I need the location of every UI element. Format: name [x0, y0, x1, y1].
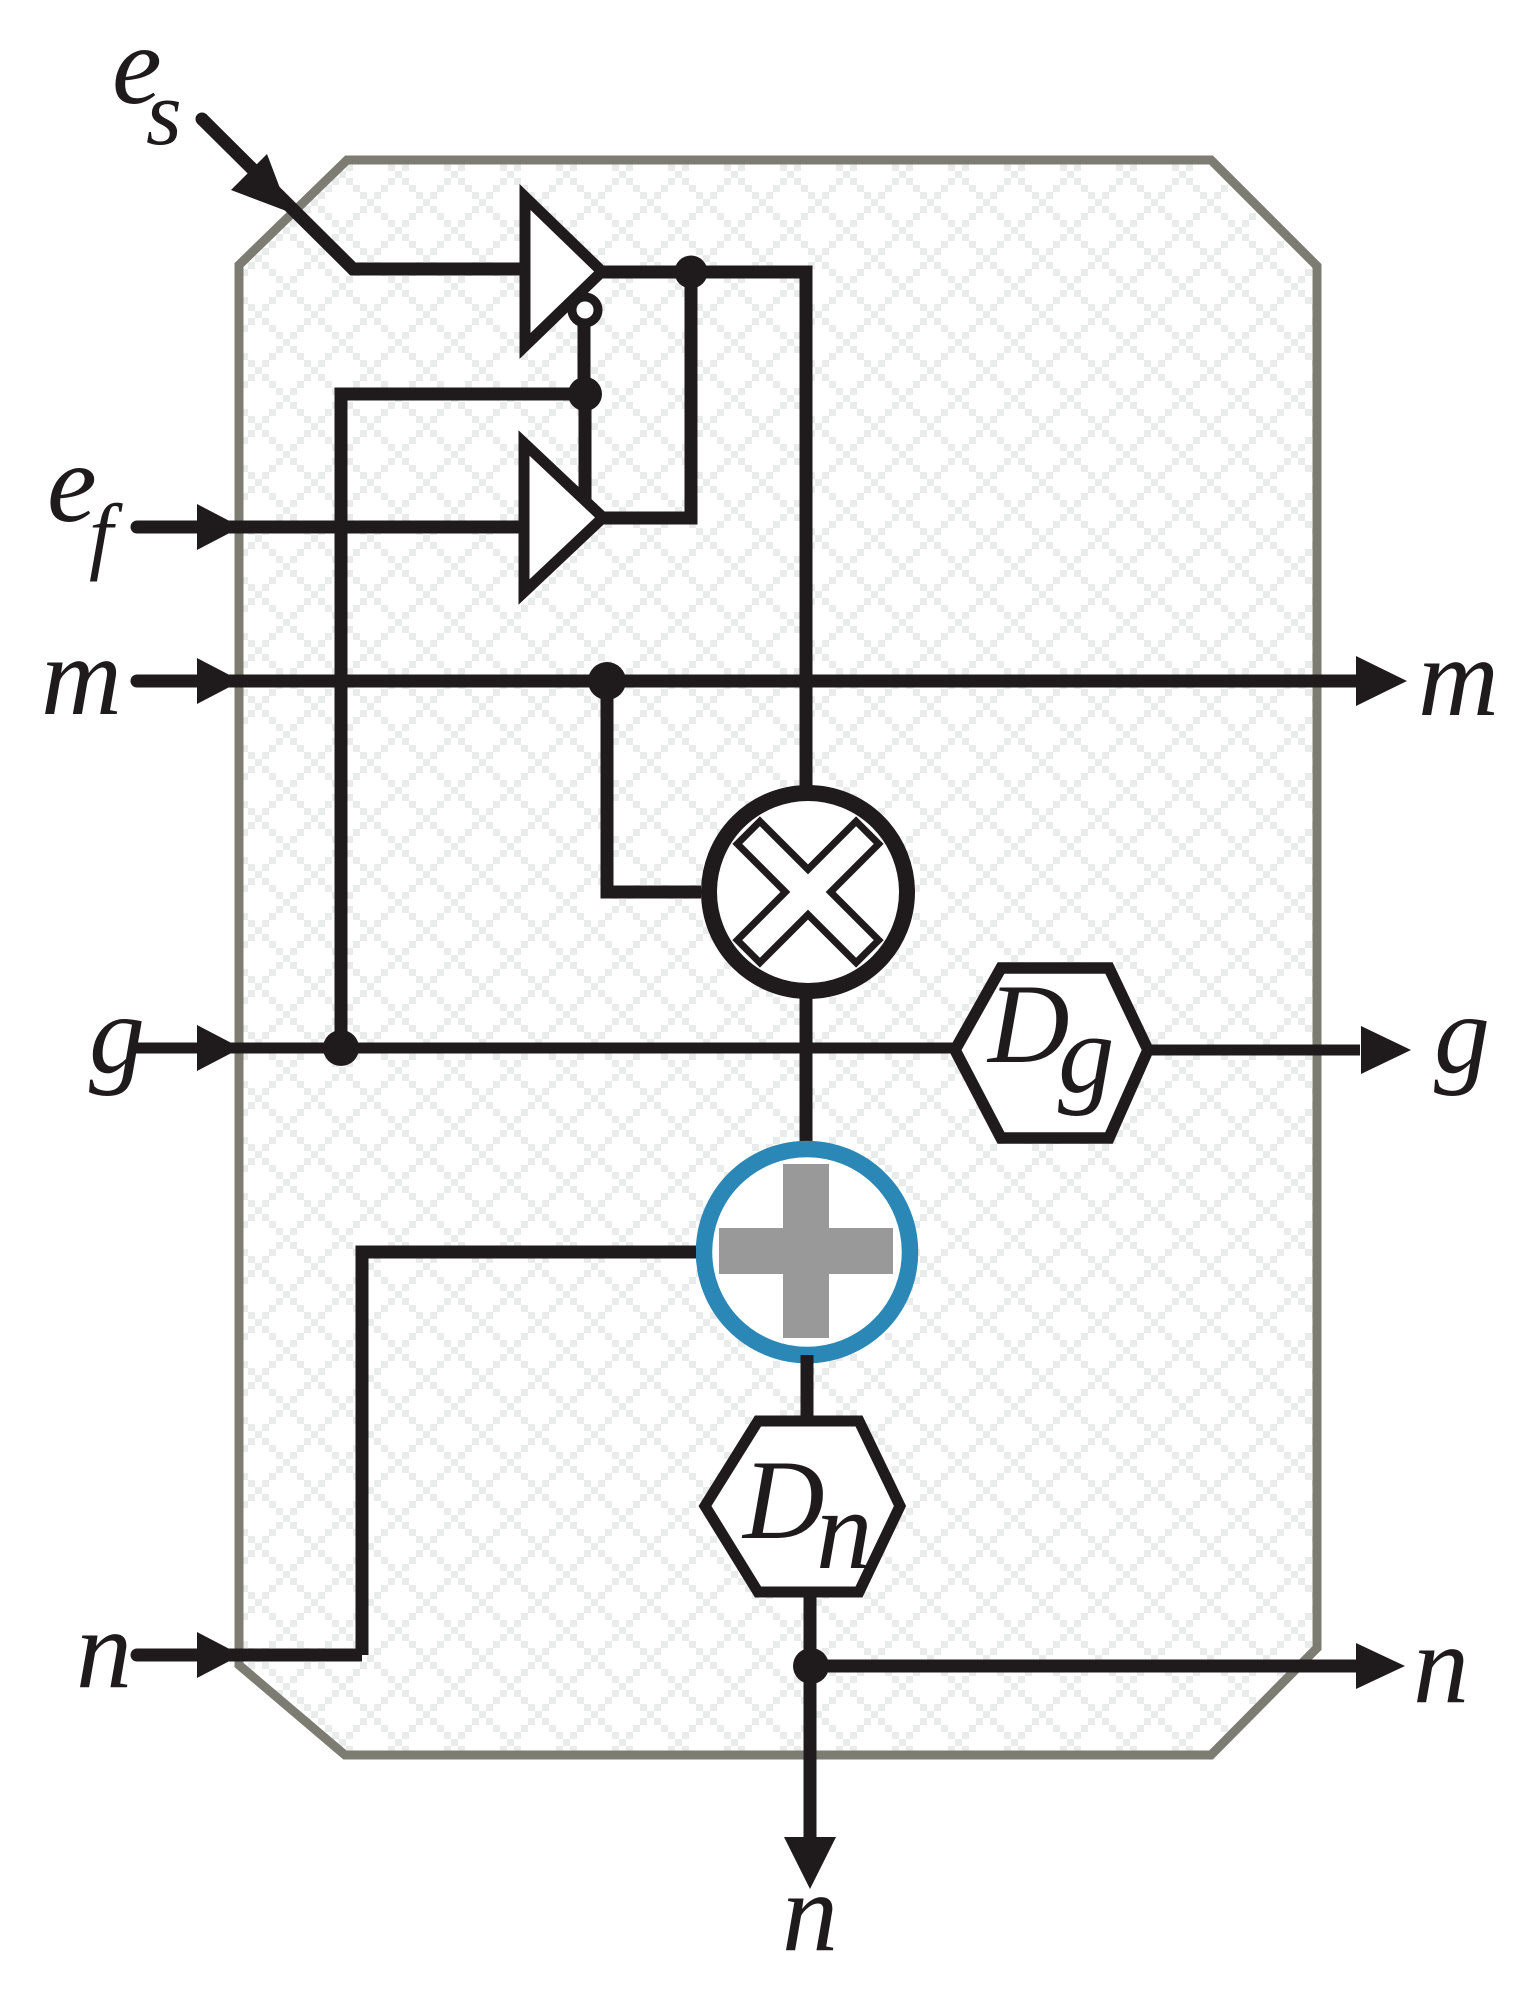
arrowhead m output: [1356, 656, 1407, 706]
svg-text:g: g: [89, 973, 145, 1097]
node m junction dot: [588, 662, 626, 700]
wire tri1 output to multiplier: [599, 272, 806, 800]
arrowhead g output: [1361, 1026, 1411, 1074]
node es start cap: [196, 113, 209, 126]
adder plus glyph: [719, 1164, 893, 1338]
wire Dn to node n: [804, 1590, 817, 1666]
arrowhead n output down: [784, 1837, 836, 1889]
wire n riser to adder: [362, 1252, 696, 1655]
svg-text:g: g: [1058, 992, 1115, 1117]
arrowhead m input: [197, 658, 241, 704]
wire n output right: [811, 1660, 1358, 1673]
wire g through line: [137, 1043, 955, 1054]
wire adder to Dn: [801, 1355, 814, 1426]
wire es input path: [202, 119, 525, 269]
wire enable control to tri2: [579, 394, 592, 500]
wire m branch to multiplier: [607, 681, 701, 892]
wire n output down: [804, 1666, 817, 1841]
svg-text:n: n: [1413, 1603, 1469, 1727]
svg-text:s: s: [146, 62, 182, 164]
wire enable control horizontal and g riser: [341, 394, 584, 1048]
svg-text:n: n: [782, 1851, 838, 1975]
svg-text:n: n: [76, 1588, 132, 1712]
delay Dn hexagon: [705, 1421, 900, 1592]
buffer U1 tri-state: [525, 197, 602, 346]
wire g output: [1148, 1045, 1360, 1056]
wire m through line: [137, 675, 1358, 688]
arrowhead n input: [197, 1632, 241, 1678]
svg-text:m: m: [1418, 616, 1499, 740]
delay Dg hexagon: [955, 968, 1148, 1138]
multiplier U3 circle: [709, 793, 907, 991]
arrowhead ef: [197, 504, 241, 550]
multiplier X glyph: [737, 821, 878, 962]
wire tri2 output up to node A: [599, 272, 691, 518]
arrowhead g input: [197, 1025, 241, 1071]
node A junction dot: [675, 256, 708, 289]
arrowhead es: [231, 154, 289, 212]
arrowhead n output right: [1356, 1643, 1405, 1689]
cell boundary octagon: [239, 160, 1317, 1755]
wire multiplier to adder: [800, 985, 813, 1145]
node g junction dot: [323, 1030, 359, 1066]
bubble on U1 enable: [572, 297, 598, 323]
node n junction dot: [793, 1648, 829, 1684]
wire n input: [137, 1649, 362, 1662]
svg-text:n: n: [816, 1468, 873, 1593]
buffer U2 tri-state: [524, 443, 603, 592]
wire enable control to bubble: [578, 320, 591, 394]
node B junction dot: [568, 377, 602, 411]
adder U4 circle: [704, 1149, 910, 1355]
svg-text:D: D: [741, 1438, 825, 1563]
svg-text:m: m: [41, 615, 122, 739]
svg-text:g: g: [1434, 973, 1490, 1097]
wire ef input: [137, 521, 523, 534]
